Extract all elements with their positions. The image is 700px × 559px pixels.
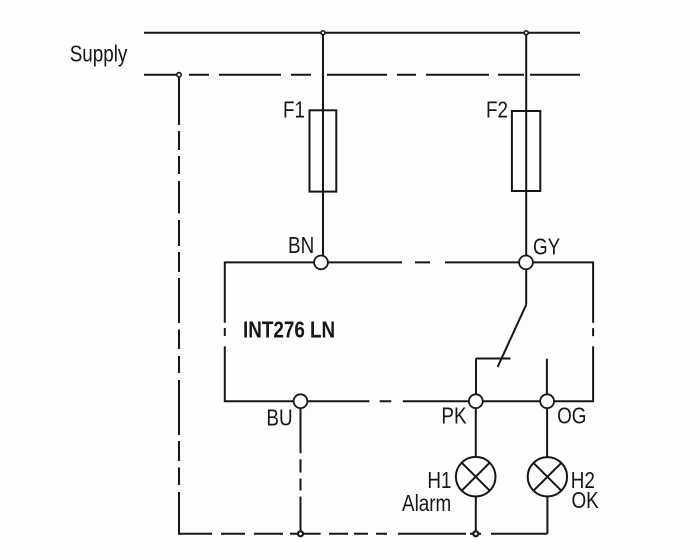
svg-text:OG: OG bbox=[557, 404, 586, 429]
svg-text:BN: BN bbox=[288, 233, 314, 258]
svg-text:Supply: Supply bbox=[70, 42, 128, 67]
svg-text:H1: H1 bbox=[427, 468, 451, 493]
svg-text:GY: GY bbox=[533, 235, 560, 260]
svg-text:INT276 LN: INT276 LN bbox=[243, 318, 335, 343]
svg-text:Alarm: Alarm bbox=[402, 491, 451, 516]
svg-text:OK: OK bbox=[572, 488, 599, 513]
svg-text:F1: F1 bbox=[283, 98, 305, 123]
svg-text:PK: PK bbox=[441, 404, 466, 429]
svg-text:BU: BU bbox=[266, 406, 292, 431]
svg-text:F2: F2 bbox=[486, 98, 508, 123]
